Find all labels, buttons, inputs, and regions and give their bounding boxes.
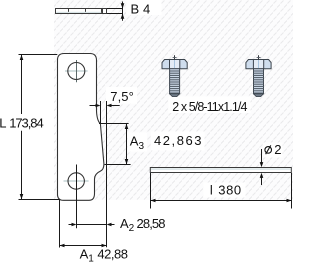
dimension diameter2 arrows bbox=[260, 162, 264, 178]
white label box bolt text bbox=[169, 97, 251, 114]
top hole horizontal centerline bbox=[65, 70, 88, 72]
svg-text:4: 4 bbox=[143, 1, 150, 16]
rod side view bbox=[150, 168, 291, 173]
rod inner line bbox=[151, 168, 291, 169]
dimension A3 arrows bbox=[125, 124, 129, 164]
bottom hole horizontal centerline bbox=[64, 180, 89, 182]
bolt 2 head bbox=[246, 55, 271, 68]
svg-text:L: L bbox=[0, 115, 6, 130]
bolt 1 head bbox=[162, 55, 187, 68]
dimension l arrows bbox=[151, 199, 292, 202]
white label box l 380 bbox=[204, 183, 246, 198]
svg-text:42,863: 42,863 bbox=[154, 133, 202, 148]
svg-text:l: l bbox=[210, 183, 213, 198]
dimension A1 ext line bbox=[60, 200, 107, 248]
svg-text:42,88: 42,88 bbox=[97, 247, 128, 262]
white label box 7.5deg bbox=[106, 87, 137, 104]
dimension 7.5deg ext lines bbox=[90, 101, 120, 247]
svg-text:7,5°: 7,5° bbox=[110, 89, 134, 104]
white label box diameter 2 bbox=[263, 143, 283, 158]
bottom hole bbox=[68, 173, 84, 189]
bolt 2 shank bbox=[253, 69, 264, 97]
dimension 7.5deg arrows bbox=[96, 104, 112, 107]
plate outline bbox=[58, 54, 104, 201]
diameter symbol bbox=[265, 145, 272, 154]
white label box B4 bbox=[127, 0, 162, 15]
dimension B ext lines bbox=[107, 2, 123, 21]
dimension A2 ext line (hole centerline) bbox=[69, 165, 115, 229]
dimension l ext lines bbox=[151, 173, 292, 209]
plate top view bar bbox=[56, 9, 107, 14]
top hole bbox=[68, 63, 85, 80]
bolt 1 shank bbox=[169, 69, 180, 97]
dimension L arrows bbox=[20, 55, 24, 199]
white label box 42,863 bbox=[151, 132, 205, 151]
dimension A1 arrows bbox=[60, 244, 107, 247]
white label box A3 bbox=[128, 133, 148, 152]
svg-text:2 x 5/8-11x1.1/4: 2 x 5/8-11x1.1/4 bbox=[172, 100, 247, 114]
svg-text:A2: A2 bbox=[120, 216, 135, 234]
hatched background region bbox=[54, 0, 293, 200]
svg-text:173,84: 173,84 bbox=[9, 115, 44, 130]
svg-text:380: 380 bbox=[218, 183, 241, 198]
plate top view bar inner tint bbox=[56, 12, 101, 13]
svg-text:28,58: 28,58 bbox=[137, 216, 166, 231]
dimension A3 ext lines bbox=[99, 124, 131, 165]
svg-text:A1: A1 bbox=[80, 247, 95, 265]
top hole vertical centerline bbox=[76, 60, 78, 82]
svg-text:B: B bbox=[131, 1, 140, 16]
dimension A2 arrows bbox=[72, 223, 112, 226]
dimension L ext lines bbox=[19, 55, 60, 200]
dimension B arrows bbox=[121, 3, 125, 19]
dimension diameter2 lines bbox=[261, 149, 263, 185]
svg-text:2: 2 bbox=[274, 142, 281, 157]
